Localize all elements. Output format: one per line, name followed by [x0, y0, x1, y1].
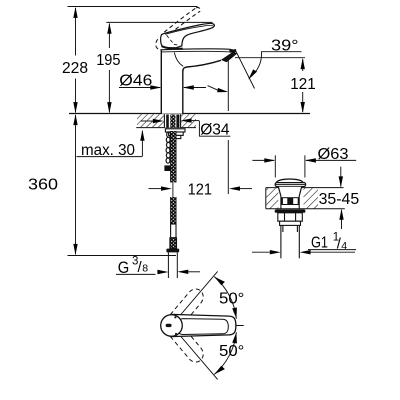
hose connector nut — [166, 249, 179, 253]
svg-text:39°: 39° — [271, 38, 299, 55]
hose centre line in dimension gap — [172, 182, 174, 197]
svg-text:8: 8 — [142, 263, 148, 275]
svg-text:195: 195 — [96, 52, 120, 69]
dimension D46 — [119, 85, 206, 89]
handle top view: knob — [161, 315, 183, 337]
dimension 360 — [68, 114, 177, 255]
pop-up waste: counter slab hatched — [266, 188, 345, 209]
aerator at spout tip — [221, 51, 237, 62]
pop-up waste hex nut — [278, 213, 303, 221]
handle top view: dashed rotated handle down — [170, 326, 203, 362]
body-to-spout inner curve — [174, 52, 183, 66]
svg-text:Ø46: Ø46 — [119, 72, 152, 89]
svg-text:121: 121 — [188, 182, 213, 199]
handle top view: lower 50-degree arc — [214, 332, 237, 374]
dimension 121 drain offset — [149, 186, 253, 190]
handle top view: solid handle body — [172, 314, 236, 336]
handle top view: centre line — [208, 325, 244, 327]
cartridge dome heavy top — [162, 46, 183, 49]
handle top view: upper 50-degree arc — [214, 277, 237, 319]
G3/8 threaded pipe — [168, 252, 177, 278]
raised lever (dashed position) — [156, 7, 200, 49]
flexible supply hose braided lower section — [171, 197, 176, 224]
svg-text:121: 121 — [290, 76, 316, 93]
svg-text:360: 360 — [28, 176, 58, 193]
handle top view: dashed rotated handle up — [170, 289, 203, 325]
spout underside — [183, 60, 221, 71]
lever handle (side view) — [161, 23, 215, 47]
dimension max. 30 leader — [77, 130, 145, 157]
dimension 39 degrees — [236, 51, 302, 88]
svg-text:max. 30: max. 30 — [81, 142, 135, 159]
faucet mounting shank in counter hole — [164, 114, 181, 127]
pop-up waste dome cap — [275, 179, 305, 187]
hose white sleeve section — [171, 224, 176, 238]
dimension 195 — [106, 22, 212, 113]
spout top face — [160, 49, 235, 52]
svg-text:Ø63: Ø63 — [318, 146, 349, 163]
svg-text:G: G — [118, 259, 130, 277]
dimension D34 — [141, 118, 231, 136]
outlet axis leader arrow — [208, 86, 229, 93]
countertop slab hatched cross-section — [136, 114, 196, 127]
dimension G1 1/4 — [252, 250, 356, 255]
pull-rod chain — [166, 132, 170, 163]
svg-text:35-45: 35-45 — [319, 191, 360, 208]
svg-text:G1: G1 — [311, 235, 328, 252]
dimension G3/8 — [116, 270, 200, 275]
faucet body — [161, 50, 183, 114]
hose lower dark collar — [170, 238, 177, 249]
svg-text:Ø34: Ø34 — [200, 122, 230, 139]
pop-up waste neck in hole — [278, 187, 301, 209]
svg-text:228: 228 — [62, 60, 88, 77]
svg-text:4: 4 — [341, 240, 347, 252]
dimension 121 spout height — [235, 58, 305, 113]
dimension 35-45 — [339, 167, 344, 229]
mounting washer under counter — [165, 129, 185, 139]
dimension D63 — [252, 155, 356, 177]
spout tip dark wedge — [229, 49, 237, 53]
svg-text:50°: 50° — [219, 291, 244, 308]
svg-text:50°: 50° — [219, 343, 244, 360]
pop-up waste tail pipe — [281, 225, 299, 258]
lever inner dashed edges — [167, 35, 179, 45]
pull-rod end knob — [164, 165, 171, 171]
spout outlet axis line — [227, 59, 229, 194]
handle top view: swing rays 50 degrees — [172, 271, 218, 379]
pop-up waste seal washer — [275, 209, 306, 212]
dimension 228 — [68, 7, 198, 114]
pop-up waste overflow windows — [281, 197, 299, 205]
pop-up waste collar ring — [280, 221, 301, 225]
countertop top surface reference line — [69, 113, 310, 115]
flexible supply hose braided upper section — [171, 131, 176, 182]
